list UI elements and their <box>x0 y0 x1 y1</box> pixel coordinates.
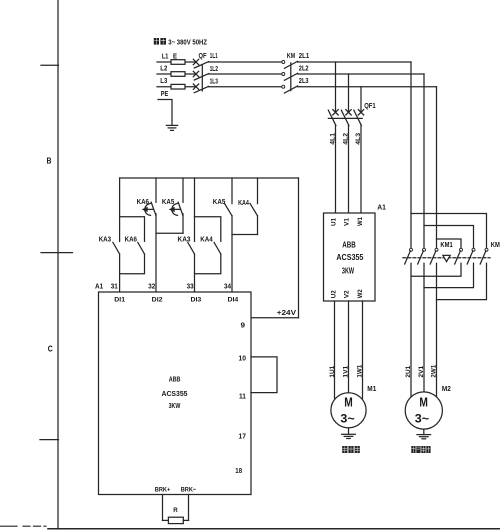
contactor KM pole 2 terminal <box>282 73 285 76</box>
svg-text:3~: 3~ <box>415 412 429 426</box>
svg-text:DI3: DI3 <box>191 297 202 304</box>
contactor KM2 pole 2 terminal <box>472 248 475 251</box>
svg-text:L1: L1 <box>162 52 169 61</box>
resistor R lead right <box>183 519 188 521</box>
motor M1 circle <box>331 393 366 428</box>
contactor KM1 pole 2 terminal <box>423 248 426 251</box>
branch DI1 bypass top <box>120 217 145 242</box>
ground M1 bar 2 <box>344 435 353 437</box>
svg-text:2L2: 2L2 <box>299 64 309 73</box>
svg-text:ABB: ABB <box>342 241 356 250</box>
svg-text:KM1: KM1 <box>440 240 452 249</box>
svg-text:KA5: KA5 <box>162 197 174 206</box>
svg-text:18: 18 <box>235 466 242 475</box>
svg-text:3KW: 3KW <box>342 266 355 275</box>
svg-text:L3: L3 <box>160 76 167 85</box>
breaker QF1 pole 1 blade <box>328 110 336 125</box>
breaker QF1 pole 2 blade <box>341 110 349 125</box>
contactor KM linkage <box>290 63 292 91</box>
wire 4L3 <box>360 126 362 214</box>
ground PE bar 3 <box>171 129 174 131</box>
svg-text:E: E <box>173 52 177 61</box>
svg-text:9: 9 <box>241 320 246 329</box>
svg-text:BRK+: BRK+ <box>155 487 171 494</box>
wire 1L1 <box>209 61 282 63</box>
contactor KM pole 3 blade <box>284 86 297 93</box>
wire L1 segment A <box>157 61 196 63</box>
frame row tick 2 <box>41 252 73 254</box>
contactor KM1 pole 3 terminal <box>435 248 438 251</box>
terminal E row L2 <box>171 72 185 77</box>
wire crossover C to KM2 pole 1 <box>437 239 462 249</box>
wire 2L1 <box>298 61 411 63</box>
svg-text:M: M <box>419 396 428 410</box>
breaker QF pole 2 blade <box>194 74 208 80</box>
wire 2L2 <box>298 73 424 75</box>
branch DI3 bypass bottom <box>195 254 221 274</box>
svg-text:ACS355: ACS355 <box>162 389 188 398</box>
ground M1 bar 1 <box>342 433 356 435</box>
contactor KM pole 1 blade <box>284 61 297 68</box>
svg-text:17: 17 <box>239 432 247 441</box>
svg-text:1V1: 1V1 <box>343 365 350 377</box>
wire BRK- <box>188 495 190 521</box>
svg-text:ABB: ABB <box>169 375 181 384</box>
relay contact KA5 blade (DI2 bypass) <box>178 202 183 215</box>
svg-text:KA6: KA6 <box>137 197 149 206</box>
drawing frame left border <box>57 0 59 529</box>
svg-text:1L2: 1L2 <box>210 64 218 73</box>
resistor R body <box>168 517 183 523</box>
branch DI4 bypass lower <box>257 216 259 235</box>
hook upper KA5 (DI2 bypass) <box>172 203 178 208</box>
relay contact KA6 blade (DI1 bypass) <box>138 242 145 254</box>
wire KM1 pole 2 output to motor M2 <box>423 263 425 392</box>
contactor KM1-KM2 linkage dashed <box>403 257 490 259</box>
svg-text:KM: KM <box>287 51 295 60</box>
wire PE <box>158 100 172 126</box>
svg-text:1U1: 1U1 <box>329 365 336 377</box>
wire 1L3 <box>209 86 282 88</box>
svg-text:BRK−: BRK− <box>181 487 197 494</box>
relay contact KA5 blade (DI4) <box>225 203 233 215</box>
wire 2L3 <box>298 86 437 88</box>
ground M2 bar 1 <box>417 434 431 436</box>
wire terminal 10 jumper <box>251 357 277 393</box>
motor M2 CJK label <box>411 446 430 453</box>
svg-text:KA3: KA3 <box>178 234 191 243</box>
svg-text:KA5: KA5 <box>213 197 226 206</box>
wire KM2 pole 1 output join <box>411 263 461 276</box>
breaker QF pole 3 contact X <box>193 84 198 89</box>
svg-text:DI1: DI1 <box>114 297 125 304</box>
svg-text:2U1: 2U1 <box>405 365 412 377</box>
branch DI4 upper wire <box>231 178 233 204</box>
frame bottom-left dashes <box>23 525 46 527</box>
resistor R lead left <box>163 519 169 521</box>
arrow KA5 (DI2 bypass) <box>170 208 180 211</box>
svg-text:2W1: 2W1 <box>431 364 438 377</box>
breaker QF pole 2 contact X <box>193 71 198 76</box>
contactor KM2 pole 3 blade <box>480 251 486 264</box>
svg-text:1W1: 1W1 <box>357 364 364 377</box>
svg-text:QF1: QF1 <box>364 101 376 110</box>
ground PE bar 2 <box>168 127 176 129</box>
wire 2L3 drop <box>436 87 438 249</box>
wire 2L1 drop <box>410 62 412 249</box>
breaker QF1 linkage <box>328 117 362 119</box>
svg-text:DI4: DI4 <box>228 297 239 304</box>
svg-text:A1: A1 <box>95 281 103 290</box>
branch DI2 rejoin <box>156 232 183 234</box>
frame row tick 1 <box>41 64 59 66</box>
breaker QF1 pole 3 contact X <box>358 110 363 115</box>
branch DI1 upper wire <box>119 178 121 241</box>
wire KM1 pole 3 output to motor M2 <box>436 263 438 398</box>
svg-text:2V1: 2V1 <box>418 365 425 377</box>
wire KM2 pole 2 output join <box>424 263 474 287</box>
wire 4L1 <box>335 126 337 214</box>
contactor KM1 pole 2 blade <box>418 251 424 264</box>
branch DI2 bypass upper <box>182 178 184 202</box>
wire V2 to motor M1 <box>348 301 350 393</box>
svg-text:M1: M1 <box>367 386 376 393</box>
branch DI2 bypass lower <box>182 214 184 233</box>
contactor KM2 pole 2 blade <box>467 251 473 264</box>
wire terminal 9 to +24V <box>251 317 299 319</box>
svg-text:11: 11 <box>239 391 246 400</box>
breaker QF linkage <box>201 65 203 91</box>
relay contact KA4 blade (DI3 bypass) <box>214 242 221 254</box>
motor M1 CJK label <box>342 446 360 453</box>
frame bottom border <box>48 528 500 530</box>
branch DI4 rejoin <box>232 234 258 236</box>
contactor KM2 pole 3 terminal <box>485 248 488 251</box>
svg-text:W2: W2 <box>357 289 364 298</box>
svg-text:KA4: KA4 <box>238 198 249 207</box>
wire L2 segment A <box>157 73 196 75</box>
wire 4L2 <box>348 126 350 214</box>
frame bottom-left stub <box>0 525 17 527</box>
drive A1 box (right) <box>324 213 376 301</box>
contactor KM1 pole 1 terminal <box>410 248 413 251</box>
contactor KM pole 3 terminal <box>282 85 285 88</box>
wire 1L2 <box>209 73 282 75</box>
branch DI1 lower wire <box>119 254 121 292</box>
svg-text:DI2: DI2 <box>152 297 163 304</box>
svg-text:B: B <box>47 156 52 166</box>
wire KM1 pole 1 output to motor M2 <box>410 263 412 398</box>
branch DI2 lower wire <box>155 214 157 292</box>
wire crossover A to KM2 pole 3 <box>411 214 487 249</box>
hook lower KA5 (DI2 bypass) <box>172 211 178 216</box>
branch DI3 lower wire <box>194 254 196 292</box>
title CJK char dian <box>154 37 159 45</box>
ground M2 stem <box>423 429 425 434</box>
relay contact KA3 blade (DI1) <box>113 242 120 254</box>
svg-text:KA4: KA4 <box>200 234 212 243</box>
hook upper KA6 (DI2) <box>145 203 151 208</box>
wire phase C tap to QF1 <box>360 87 362 113</box>
hook lower KA6 (DI2) <box>145 211 151 216</box>
svg-text:3~ 380V 50HZ: 3~ 380V 50HZ <box>168 38 207 47</box>
wire L3 segment A <box>157 86 196 88</box>
interlock triangle <box>443 255 450 261</box>
svg-text:32: 32 <box>148 281 155 290</box>
svg-text:V1: V1 <box>344 218 351 226</box>
+24V rail top <box>120 177 299 179</box>
svg-text:4L1: 4L1 <box>329 133 336 145</box>
svg-text:3~: 3~ <box>340 412 354 426</box>
ground M1 bar 3 <box>347 438 350 440</box>
contactor KM1 pole 1 blade <box>405 251 411 264</box>
ground M1 stem <box>348 428 350 434</box>
terminal E row L3 <box>171 84 185 89</box>
svg-text:1L1: 1L1 <box>210 51 218 60</box>
branch DI2 upper wire <box>155 178 157 202</box>
motor M2 circle <box>405 392 442 429</box>
svg-text:34: 34 <box>224 281 231 290</box>
drive A1 box (left) <box>99 292 252 495</box>
branch DI3 bypass top <box>195 217 221 242</box>
svg-text:KA3: KA3 <box>99 234 111 243</box>
wire BRK+ <box>162 495 164 521</box>
svg-text:ACS355: ACS355 <box>336 253 363 262</box>
title CJK char yuan <box>160 38 166 46</box>
svg-text:M: M <box>344 396 353 410</box>
branch DI3 upper wire <box>194 178 196 241</box>
ground PE bar 1 <box>166 124 177 126</box>
wire phase B tap to QF1 <box>348 74 350 112</box>
contactor KM pole 2 blade <box>284 73 297 80</box>
breaker QF1 pole 3 blade <box>354 110 362 125</box>
svg-text:W1: W1 <box>357 217 364 226</box>
svg-text:31: 31 <box>111 281 118 290</box>
svg-text:3KW: 3KW <box>169 401 181 410</box>
svg-text:U1: U1 <box>331 218 338 226</box>
svg-text:+24V: +24V <box>277 308 296 317</box>
contactor KM1 pole 3 blade <box>430 251 436 264</box>
svg-text:2L3: 2L3 <box>299 76 309 85</box>
branch DI4 bypass upper <box>257 178 259 204</box>
svg-text:U2: U2 <box>331 290 338 298</box>
svg-text:L2: L2 <box>160 63 167 72</box>
wire phase A tap to QF1 <box>335 62 337 112</box>
contactor KM2 pole 1 terminal <box>460 248 463 251</box>
svg-text:PE: PE <box>161 89 169 98</box>
svg-text:V2: V2 <box>344 290 351 298</box>
svg-text:KM2: KM2 <box>491 240 500 249</box>
svg-text:10: 10 <box>239 354 247 363</box>
contactor KM pole 1 terminal <box>282 61 285 64</box>
svg-text:A1: A1 <box>377 202 386 211</box>
wire U2 to motor M1 <box>334 301 336 398</box>
svg-text:4L2: 4L2 <box>342 133 349 145</box>
breaker QF1 pole 1 contact X <box>333 110 338 115</box>
contactor KM2 pole 1 blade <box>455 251 461 264</box>
relay contact KA6 blade (DI2) <box>151 202 156 215</box>
wire KM2 pole 3 output join <box>437 263 487 299</box>
svg-text:33: 33 <box>187 281 194 290</box>
breaker QF pole 3 blade <box>194 86 208 92</box>
breaker QF pole 1 blade <box>194 62 208 68</box>
ground M2 bar 2 <box>420 436 429 438</box>
svg-text:2L1: 2L1 <box>299 51 309 60</box>
svg-text:QF: QF <box>199 51 207 60</box>
terminal E row L1 <box>171 60 185 65</box>
svg-text:4L3: 4L3 <box>355 133 362 145</box>
relay contact KA3 blade (DI3) <box>188 242 195 254</box>
svg-text:KA6: KA6 <box>125 234 137 243</box>
svg-text:R: R <box>173 507 178 514</box>
wire W2 to motor M1 <box>362 301 364 398</box>
branch DI4 lower wire <box>231 216 233 292</box>
branch DI1 bypass bottom <box>120 254 145 274</box>
svg-text:1L3: 1L3 <box>210 77 218 86</box>
breaker QF pole 1 contact X <box>193 59 198 64</box>
arrow KA6 (DI2) <box>143 208 153 211</box>
relay contact KA4 blade (DI4 bypass) <box>250 203 258 215</box>
svg-text:C: C <box>48 344 53 354</box>
ground M2 bar 3 <box>422 438 426 440</box>
wire 2L2 drop <box>423 74 425 249</box>
+24V feed vertical <box>298 178 300 318</box>
svg-text:M2: M2 <box>442 386 451 393</box>
breaker QF1 pole 2 contact X <box>346 110 351 115</box>
wire crossover B to KM2 pole 2 <box>424 226 474 249</box>
frame row tick 3 <box>40 439 59 441</box>
